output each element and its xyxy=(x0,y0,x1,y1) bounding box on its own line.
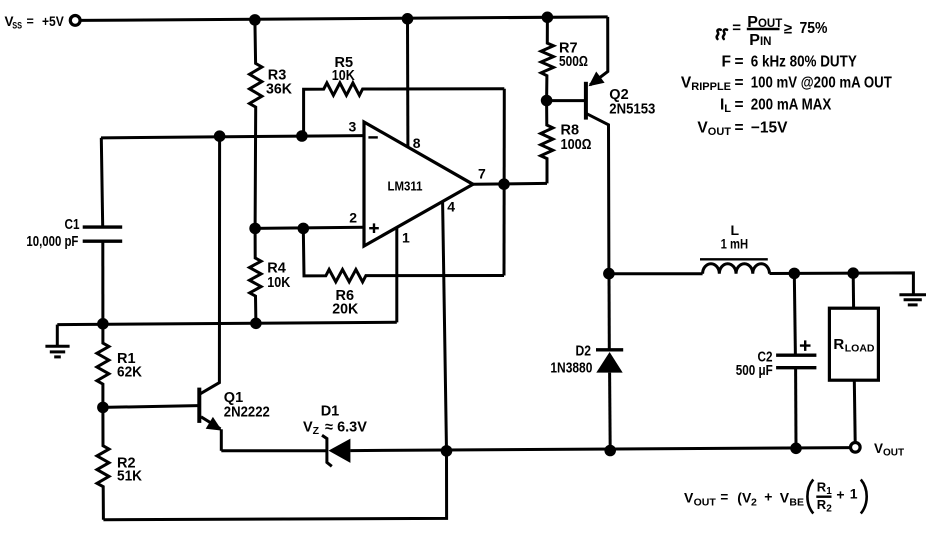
svg-text:SS: SS xyxy=(12,21,22,31)
node Q2 collector-L xyxy=(603,268,615,280)
node gnd-R1 xyxy=(97,318,109,330)
resistor R2 xyxy=(97,407,109,519)
svg-text:500Ω: 500Ω xyxy=(559,54,588,70)
wire pin2 input xyxy=(255,227,364,228)
op-amp plus sign xyxy=(369,223,379,233)
svg-text:75%: 75% xyxy=(800,20,828,37)
capacitor C2 xyxy=(794,273,795,355)
svg-text:6 kHz 80% DUTY: 6 kHz 80% DUTY xyxy=(751,54,858,71)
svg-text:V: V xyxy=(780,490,790,506)
svg-text:(V: (V xyxy=(737,490,752,506)
node pin3-R5 xyxy=(296,130,308,142)
svg-text:VZ≈ 6.3V: VZ≈ 6.3V xyxy=(303,420,367,438)
svg-text:1: 1 xyxy=(850,485,858,501)
wire ground bus xyxy=(57,322,397,324)
transistor Q1 base wire xyxy=(103,406,198,408)
svg-text:=: = xyxy=(732,20,741,37)
node pin2-R6 xyxy=(298,223,310,235)
node C2 bottom xyxy=(790,443,802,455)
svg-text:2: 2 xyxy=(751,497,757,509)
pin 7 wire xyxy=(473,182,547,186)
svg-text:8: 8 xyxy=(413,135,421,151)
svg-text:−15V: −15V xyxy=(751,119,788,136)
note efficiency eta symbol xyxy=(717,29,721,39)
node rail-R7 xyxy=(542,11,554,23)
node output pin7 xyxy=(498,178,510,190)
node rail-R3 xyxy=(249,14,261,26)
svg-text:≥: ≥ xyxy=(784,20,792,37)
resistor R8 xyxy=(541,101,553,184)
node base Q1 xyxy=(97,402,109,414)
svg-text:1: 1 xyxy=(402,230,410,246)
svg-text:V: V xyxy=(684,490,694,506)
svg-text:7: 7 xyxy=(478,166,486,182)
svg-text:200 mA MAX: 200 mA MAX xyxy=(751,96,832,113)
svg-text:2: 2 xyxy=(349,209,357,225)
node D1-D2 xyxy=(604,445,616,457)
inductor L xyxy=(609,272,703,275)
resistor R3 xyxy=(250,20,262,229)
node L-C2 xyxy=(789,268,801,280)
pin 4 wire xyxy=(443,202,447,451)
wire bottom return xyxy=(103,451,446,520)
svg-text:+: + xyxy=(836,486,844,502)
node rail-pin8 xyxy=(402,13,414,25)
node gnd-R4 xyxy=(250,318,262,330)
svg-text:LM311: LM311 xyxy=(388,179,423,194)
resistor RLOAD xyxy=(852,273,855,308)
svg-text:4: 4 xyxy=(447,199,455,215)
pin 1 wire xyxy=(395,228,398,323)
svg-text:1 mH: 1 mH xyxy=(721,237,749,252)
svg-text:10,000 pF: 10,000 pF xyxy=(26,234,78,250)
svg-text:+5V: +5V xyxy=(42,14,64,29)
capacitor C1 xyxy=(101,138,102,227)
svg-text:2: 2 xyxy=(826,503,832,514)
svg-text:=: = xyxy=(735,96,744,113)
svg-text:OUT: OUT xyxy=(694,497,717,509)
svg-text:L: L xyxy=(731,222,740,238)
ground symbol right xyxy=(899,293,926,296)
wire feedback column to output node xyxy=(503,89,506,276)
node R7-R8-base xyxy=(541,95,553,107)
svg-text:1: 1 xyxy=(826,486,832,497)
resistor R7 xyxy=(541,17,553,100)
resistor R5 xyxy=(304,83,505,136)
diode D2 xyxy=(608,274,611,350)
op-amp U1 LM311 xyxy=(364,122,473,246)
svg-text:36K: 36K xyxy=(266,82,293,98)
output terminal VOUT xyxy=(851,443,861,453)
svg-text:=: = xyxy=(735,54,744,71)
svg-text:10K: 10K xyxy=(332,68,355,84)
zener diode D1 xyxy=(221,449,327,452)
node pin3-collector xyxy=(214,130,226,142)
svg-text:=: = xyxy=(720,490,728,505)
transistor Q2 xyxy=(590,17,608,85)
resistor R4 xyxy=(250,228,262,323)
svg-text:D1: D1 xyxy=(321,404,340,420)
power terminal VSS xyxy=(70,16,80,26)
pin 8 wire xyxy=(406,19,409,147)
node pin2-R4 xyxy=(249,223,261,235)
svg-text:F: F xyxy=(722,54,731,71)
svg-text:2N2222: 2N2222 xyxy=(224,404,270,420)
svg-text:=: = xyxy=(735,74,744,91)
svg-text:2N5153: 2N5153 xyxy=(609,102,655,118)
resistor R6 xyxy=(303,228,504,282)
ground symbol left xyxy=(56,325,59,346)
svg-text:BE: BE xyxy=(789,497,804,509)
svg-text:1N3880: 1N3880 xyxy=(550,360,592,376)
svg-text:+: + xyxy=(764,489,772,505)
resistor R1 xyxy=(97,324,109,408)
svg-text:C1: C1 xyxy=(65,217,80,233)
svg-text:=: = xyxy=(735,119,744,136)
svg-text:500 μF: 500 μF xyxy=(736,363,773,379)
svg-text:3: 3 xyxy=(349,119,357,135)
svg-text:=: = xyxy=(27,15,34,29)
transistor Q1 xyxy=(197,388,201,423)
wire top +5V rail xyxy=(81,17,608,21)
svg-text:10K: 10K xyxy=(267,275,290,291)
svg-text:100 mV @200 mA OUT: 100 mV @200 mA OUT xyxy=(751,74,892,91)
svg-text:20K: 20K xyxy=(332,302,359,318)
op-amp minus sign xyxy=(368,136,377,138)
svg-text:D2: D2 xyxy=(576,343,592,359)
node L-RLOAD xyxy=(847,267,859,279)
svg-text:100Ω: 100Ω xyxy=(561,137,592,153)
svg-text:62K: 62K xyxy=(117,364,142,380)
C2 plus sign xyxy=(800,340,811,351)
wire pin3 input xyxy=(101,136,364,138)
node D1-pin4 xyxy=(441,445,453,457)
svg-text:51K: 51K xyxy=(117,469,142,485)
